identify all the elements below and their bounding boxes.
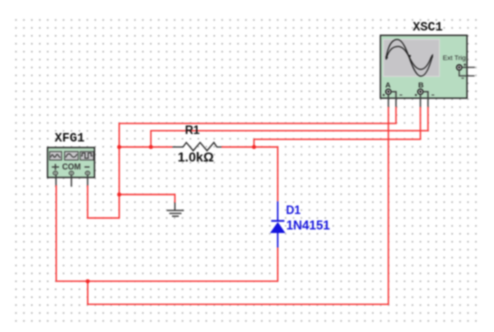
XSC1 pin stub A- with jog <box>391 92 396 107</box>
diode cathode lead (blue) <box>277 201 279 220</box>
svg-text:XFG1: XFG1 <box>55 132 85 146</box>
wire: A+ channel long path to bottom <box>88 107 389 305</box>
XFG1 pin stub COM (unconnected) <box>70 175 72 187</box>
node junction on main wire (B- tap) <box>149 145 153 149</box>
node junction on main wire left <box>117 145 121 149</box>
svg-text:B: B <box>418 81 424 90</box>
node junction ground tap <box>117 193 121 197</box>
diode anode lead (blue) <box>277 233 279 248</box>
XFG1 terminal COM <box>69 171 73 175</box>
svg-text:R1: R1 <box>185 125 200 137</box>
XFG1 minus terminal mark <box>85 166 90 168</box>
XSC1 pin stub B- with jog <box>423 92 428 107</box>
trace arrowheads <box>385 56 388 60</box>
node junction R1/D1 (B+ tap) <box>252 145 256 149</box>
XFG1 pin stub + <box>55 175 57 186</box>
wire: main horizontal right of R1 to diode branch <box>222 147 278 201</box>
wire: XFG1 plus output down and along bottom to diode <box>56 185 278 281</box>
function generator XFG1 body <box>48 148 95 178</box>
XFG1 terminal + <box>53 171 57 175</box>
wire: A- channel horizontal from scope to left vertical <box>119 107 396 147</box>
XSC1 screen <box>383 39 439 76</box>
XFG1 sine-distort screen 1 <box>50 152 62 160</box>
svg-text:1N4151: 1N4151 <box>286 219 330 233</box>
XSC1 Ext Trig terminal <box>457 65 462 70</box>
Ext Trig minus mark <box>461 77 464 79</box>
channel B plus mark <box>415 94 417 96</box>
XSC1 pin stub A+ <box>387 94 389 107</box>
XSC1 screen sine trace outer <box>386 39 432 76</box>
Ext Trig plus mark <box>464 64 466 66</box>
svg-text:A: A <box>385 81 391 90</box>
resistor R1 <box>173 143 222 151</box>
XFG1 pin stub - <box>87 175 89 186</box>
diode D1 (1N4151) <box>270 201 285 247</box>
wire: B+ channel to R1/D1 junction <box>254 107 420 147</box>
XSC1 pin stub B+ <box>419 94 421 107</box>
XSC1 terminal B <box>418 89 423 94</box>
channel A plus mark <box>383 94 385 96</box>
channel B minus mark <box>432 94 435 96</box>
Ext Trig pin lines <box>459 67 475 76</box>
XSC1 terminal A <box>386 89 391 94</box>
diode cathode bar <box>271 220 284 222</box>
diode triangle (anode) <box>270 222 285 233</box>
svg-text:XSC1: XSC1 <box>413 20 443 34</box>
XFG1 terminal - <box>85 171 89 175</box>
node junction bottom wire (A+ tap) <box>86 279 90 283</box>
wire: B- channel horizontal <box>151 107 428 147</box>
ground symbol <box>167 203 184 217</box>
XFG1 sine screen 2 <box>65 152 79 160</box>
svg-text:COM: COM <box>62 163 81 172</box>
wire: ground branch <box>119 195 175 204</box>
XFG1 square screen 3 <box>80 152 93 160</box>
svg-text:D1: D1 <box>286 205 301 217</box>
wire: main horizontal node left of R1 <box>119 146 172 148</box>
wire: XFG1 minus to ground node <box>88 147 120 218</box>
svg-text:Ext Trig: Ext Trig <box>443 55 466 62</box>
XFG1 plus terminal mark <box>52 164 59 170</box>
svg-text:1.0kΩ: 1.0kΩ <box>178 150 215 165</box>
channel A minus mark <box>400 94 403 96</box>
XSC1 screen sine trace inner <box>386 46 431 69</box>
oscilloscope XSC1 body <box>380 35 475 98</box>
